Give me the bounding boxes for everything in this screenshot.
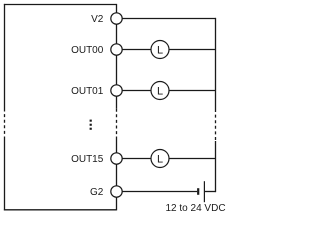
svg-text:OUT00: OUT00 — [71, 45, 104, 56]
svg-text:OUT01: OUT01 — [71, 86, 104, 97]
svg-text:L: L — [157, 85, 163, 97]
svg-text:OUT15: OUT15 — [71, 154, 104, 165]
svg-text:L: L — [157, 44, 163, 56]
svg-text:G2: G2 — [90, 187, 104, 198]
svg-text:V2: V2 — [91, 14, 104, 25]
svg-text:L: L — [157, 153, 163, 165]
svg-text:12 to 24 VDC: 12 to 24 VDC — [166, 203, 226, 214]
